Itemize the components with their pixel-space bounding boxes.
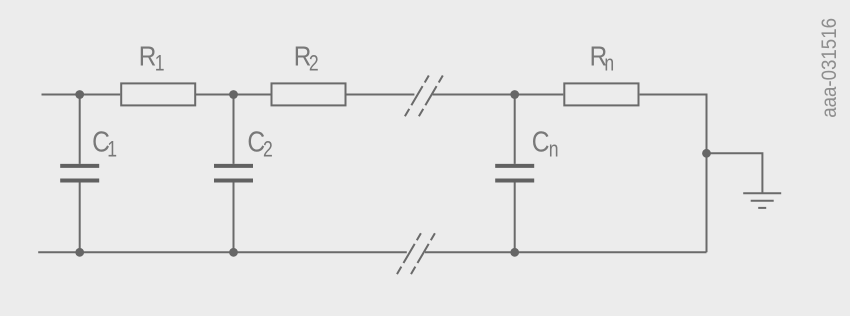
- svg-text:1: 1: [155, 52, 165, 76]
- svg-text:C: C: [532, 126, 550, 158]
- svg-text:1: 1: [107, 138, 117, 162]
- svg-text:2: 2: [309, 52, 319, 76]
- svg-text:aaa-031516: aaa-031516: [818, 18, 841, 118]
- svg-text:R: R: [139, 40, 157, 72]
- svg-text:n: n: [549, 138, 559, 162]
- svg-text:2: 2: [263, 138, 273, 162]
- svg-text:n: n: [604, 52, 614, 76]
